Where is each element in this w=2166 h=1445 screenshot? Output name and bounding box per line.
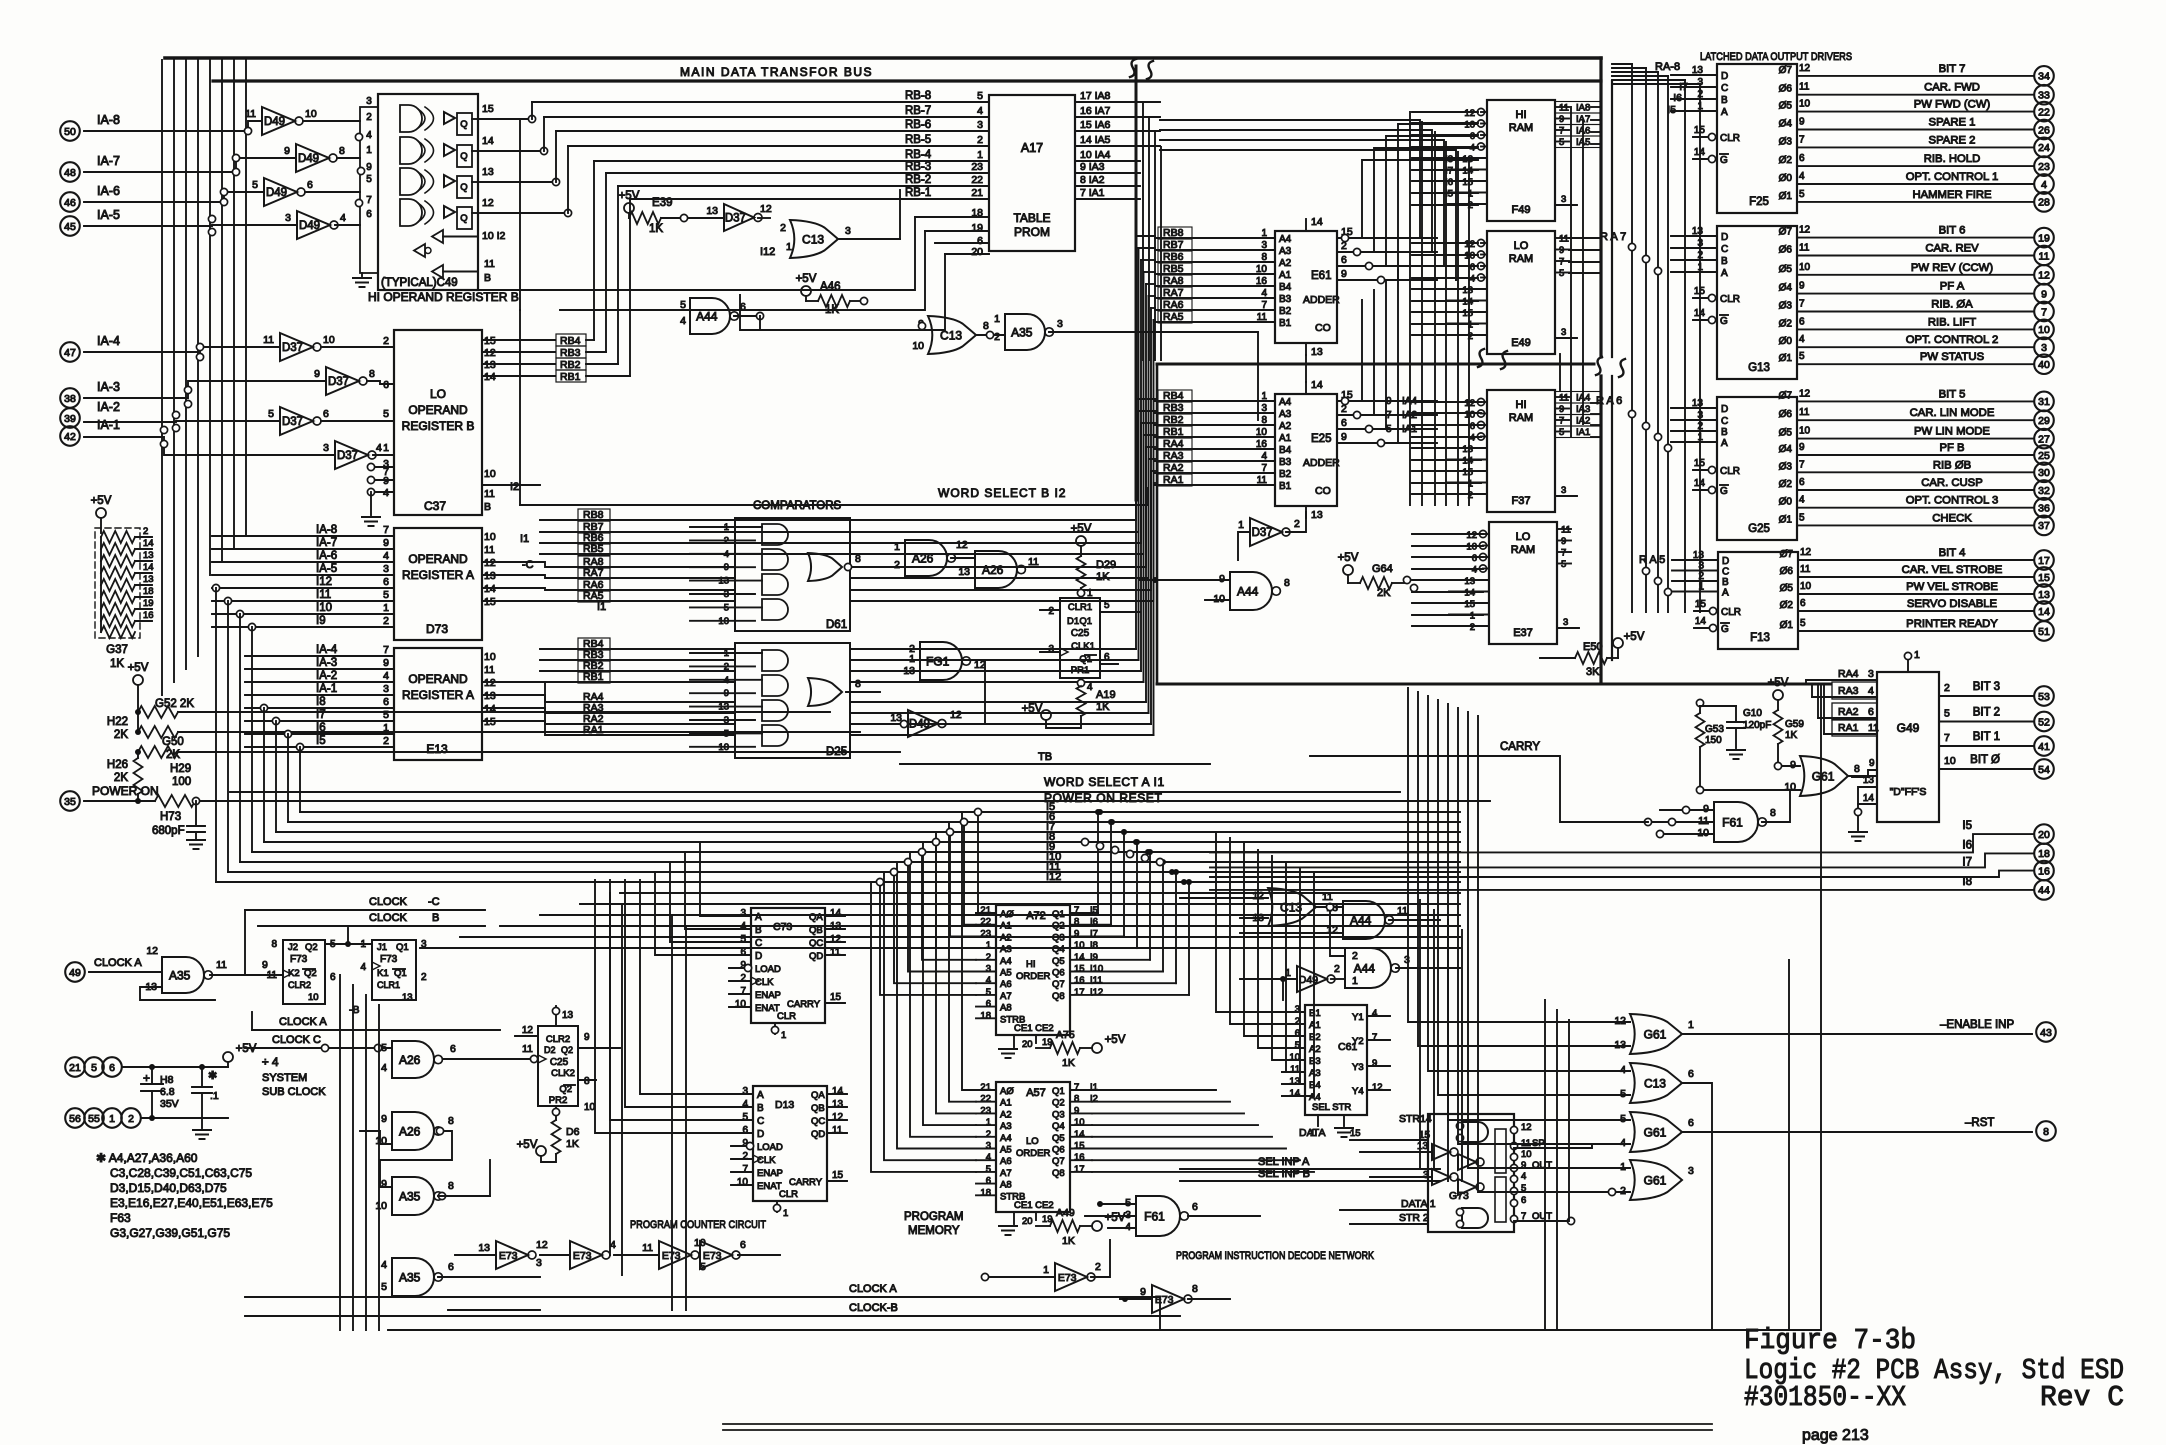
terminal 23 RIB. HOLD	[2034, 156, 2054, 176]
gate D25 OR	[808, 678, 842, 706]
svg-text:Ø3: Ø3	[1779, 136, 1793, 147]
svg-text:C37: C37	[424, 499, 446, 513]
svg-text:4: 4	[680, 315, 686, 327]
svg-text:12: 12	[1799, 63, 1811, 74]
wire F25 G pin	[1708, 155, 1715, 162]
svg-text:G: G	[1721, 624, 1729, 635]
wire left vertical bus bundle	[161, 60, 163, 695]
svg-text:BIT 5: BIT 5	[1939, 388, 1966, 400]
svg-text:I6: I6	[1673, 92, 1682, 104]
svg-text:I2: I2	[1090, 1094, 1098, 1105]
svg-text:A44: A44	[1237, 584, 1259, 598]
svg-text:E25: E25	[1311, 433, 1331, 445]
svg-text:19: 19	[971, 222, 983, 234]
svg-text:D37: D37	[725, 213, 746, 225]
svg-text:REGISTER A: REGISTER A	[402, 688, 474, 702]
svg-text:1: 1	[786, 241, 792, 253]
svg-text:5: 5	[1799, 189, 1805, 200]
wire F49 left pin rings	[1477, 108, 1484, 115]
wire C73 CLR stem	[774, 1023, 776, 1034]
svg-text:+5V: +5V	[91, 495, 112, 507]
svg-text:Q4: Q4	[1052, 944, 1065, 955]
svg-text:RB8: RB8	[583, 509, 604, 521]
svg-text:Ø7: Ø7	[1779, 390, 1793, 401]
svg-text:SPARE 2: SPARE 2	[1929, 134, 1976, 146]
svg-text:11: 11	[267, 970, 278, 981]
svg-text:6: 6	[740, 1239, 746, 1251]
svg-text:13: 13	[1462, 285, 1473, 296]
svg-text:2: 2	[977, 134, 983, 146]
wire A44#1 out	[734, 315, 760, 317]
svg-text:3: 3	[383, 563, 389, 575]
svg-text:2: 2	[740, 973, 746, 984]
svg-text:E13: E13	[426, 742, 448, 756]
svg-text:8: 8	[339, 145, 345, 157]
svg-text:5: 5	[383, 709, 389, 721]
svg-text:CHECK: CHECK	[1932, 512, 1972, 524]
svg-text:20: 20	[1022, 1216, 1033, 1227]
svg-text:C13: C13	[1280, 900, 1302, 914]
wire A17 pin18 drop	[445, 217, 915, 290]
svg-text:9: 9	[1341, 431, 1347, 443]
svg-text:D37: D37	[282, 342, 303, 354]
svg-text:1: 1	[986, 1117, 991, 1128]
wire A72 output risers to I bus	[1092, 912, 1098, 914]
svg-text:IA-5: IA-5	[316, 563, 337, 575]
svg-text:A49: A49	[1056, 1207, 1075, 1219]
svg-text:A2: A2	[1000, 1109, 1012, 1120]
svg-text:4: 4	[1868, 685, 1874, 697]
svg-text:Q8: Q8	[1052, 991, 1065, 1002]
svg-text:22: 22	[2038, 106, 2050, 118]
wire G73 out 9 run	[1514, 1167, 1630, 1169]
svg-text:A7: A7	[1000, 991, 1012, 1002]
buffer D49 #3	[264, 178, 297, 206]
wire G49 RA input rows	[1805, 680, 1807, 684]
wire IA-1 input run	[84, 437, 335, 455]
terminal 16 I7	[2034, 861, 2054, 881]
svg-text:+5V: +5V	[128, 662, 149, 674]
wire D13 CLR stem	[776, 1201, 778, 1212]
buffer C49 feedback 3	[432, 265, 443, 278]
svg-text:11: 11	[484, 544, 495, 556]
svg-text:CE1 CE2: CE1 CE2	[1014, 1200, 1054, 1211]
svg-text:F25: F25	[1749, 196, 1769, 208]
wire C13#3 to A44#3	[1316, 906, 1343, 908]
svg-text:Ø7: Ø7	[1779, 227, 1793, 238]
svg-text:11: 11	[1799, 407, 1810, 418]
latch Q cell 4	[457, 207, 472, 229]
terminal 15 CAR. VEL STROBE	[2034, 567, 2054, 587]
svg-text:D: D	[1721, 232, 1728, 243]
wire +5V A19	[1041, 710, 1051, 720]
svg-text:✱ A4,A27,A36,A60: ✱ A4,A27,A36,A60	[96, 1151, 198, 1165]
svg-text:8: 8	[271, 939, 277, 950]
svg-text:18: 18	[980, 1187, 991, 1198]
terminal 18 I6	[2034, 844, 2054, 864]
svg-text:J1: J1	[377, 942, 387, 953]
svg-text:6: 6	[383, 379, 389, 391]
wire A17 pin20 drop	[740, 254, 945, 330]
svg-text:3K: 3K	[1586, 666, 1600, 678]
IC F73 #1 flip-flop box	[283, 940, 325, 1004]
svg-text:5: 5	[1800, 618, 1806, 629]
wire D49#2 out	[337, 157, 360, 159]
svg-text:1: 1	[894, 541, 900, 553]
svg-text:3: 3	[977, 119, 983, 131]
svg-text:G: G	[1720, 155, 1728, 166]
svg-text:11: 11	[245, 108, 256, 120]
svg-text:5: 5	[1620, 1088, 1626, 1100]
wire I5-I12 bus lines with labels	[300, 811, 1460, 813]
svg-text:CLOCK C: CLOCK C	[272, 1034, 321, 1046]
svg-text:F37: F37	[1512, 495, 1531, 507]
svg-text:2K: 2K	[114, 729, 128, 741]
svg-text:5: 5	[381, 1281, 387, 1293]
svg-text:Q7: Q7	[1052, 1156, 1065, 1167]
svg-text:15: 15	[484, 596, 496, 608]
svg-text:G3,G27,G39,G51,G75: G3,G27,G39,G51,G75	[110, 1226, 230, 1240]
wire mesh C61 feed verticals	[1216, 832, 1282, 1012]
svg-text:29: 29	[2038, 415, 2050, 427]
svg-text:5: 5	[383, 589, 389, 601]
wire +5V feed for G37	[96, 508, 106, 518]
wire staircase bundle E25	[1337, 300, 1362, 401]
svg-text:CLR: CLR	[1720, 466, 1740, 477]
buffer E73 #4	[700, 1241, 732, 1269]
svg-text:E39: E39	[652, 197, 672, 209]
svg-text:5: 5	[252, 179, 258, 191]
svg-text:11: 11	[832, 1125, 843, 1136]
svg-text:6: 6	[1800, 598, 1806, 609]
svg-text:14: 14	[484, 583, 496, 595]
svg-text:10 IA4: 10 IA4	[1080, 149, 1111, 161]
wire D25 output	[846, 691, 880, 693]
svg-text:RB-2: RB-2	[905, 174, 931, 186]
svg-text:RIB ØB: RIB ØB	[1933, 459, 1971, 471]
gate A44 #1 NAND	[690, 298, 730, 334]
wire F13 G pin	[1709, 624, 1716, 631]
terminal 50 IA-8	[60, 121, 80, 141]
wire A44#3 pin12 input	[1240, 932, 1343, 934]
wire E37 left pin rings	[1479, 530, 1486, 537]
svg-text:5: 5	[91, 1062, 97, 1074]
wire carry line	[1310, 756, 1648, 822]
svg-text:PROGRAM INSTRUCTION DECODE: PROGRAM INSTRUCTION DECODE NETWORK	[1176, 1250, 1374, 1262]
resistor G37 element 6	[101, 591, 135, 603]
svg-text:F61: F61	[1722, 815, 1743, 829]
svg-text:8: 8	[1284, 577, 1290, 589]
svg-text:12: 12	[1800, 547, 1812, 558]
svg-text:I6: I6	[1962, 839, 1972, 851]
junction rings on driver feed bundle	[1628, 243, 1635, 250]
svg-text:5: 5	[1104, 600, 1110, 611]
buffer G73 #2	[1458, 1154, 1476, 1170]
wire pin column ground stem	[361, 273, 363, 276]
svg-text:1K: 1K	[649, 223, 663, 235]
svg-text:B2: B2	[1279, 469, 1292, 480]
svg-text:7: 7	[742, 1164, 748, 1175]
svg-text:35: 35	[64, 796, 76, 808]
svg-text:D1: D1	[1067, 616, 1079, 627]
svg-text:4: 4	[1372, 1008, 1377, 1019]
svg-text:#301850--XX: #301850--XX	[1744, 1381, 1906, 1414]
IC G25 box	[1717, 397, 1797, 540]
svg-text:H73: H73	[160, 811, 181, 823]
svg-text:D37: D37	[1252, 527, 1273, 539]
svg-text:+5V: +5V	[517, 1139, 538, 1151]
svg-text:9: 9	[1341, 268, 1347, 280]
terminal 47 IA-4	[60, 342, 80, 362]
svg-text:37: 37	[2038, 520, 2050, 532]
svg-text:6: 6	[1470, 421, 1475, 432]
svg-text:SYSTEM: SYSTEM	[262, 1072, 307, 1084]
svg-text:Q6: Q6	[1052, 1145, 1065, 1156]
svg-text:7: 7	[1799, 299, 1805, 310]
wire word select B line	[520, 488, 1148, 505]
svg-text:9 IA3: 9 IA3	[1080, 161, 1105, 173]
svg-text:C3,C28,C39,C51,C63,C75: C3,C28,C39,C51,C63,C75	[110, 1166, 252, 1180]
svg-text:A: A	[1721, 268, 1728, 279]
svg-text:43: 43	[2040, 1027, 2052, 1039]
svg-text:4: 4	[1261, 451, 1267, 462]
svg-text:21: 21	[69, 1062, 81, 1074]
wire extra program counter verticals	[609, 893, 611, 1255]
svg-text:RB-8: RB-8	[905, 90, 931, 102]
IC D73 OPERAND REGISTER A box	[394, 528, 482, 640]
svg-text:3: 3	[1688, 1165, 1694, 1177]
buffer E73 #2	[570, 1241, 602, 1269]
svg-text:12: 12	[1799, 225, 1811, 236]
svg-text:Ø0: Ø0	[1779, 173, 1793, 184]
svg-text:17: 17	[2038, 555, 2050, 567]
svg-text:1: 1	[1352, 975, 1358, 987]
svg-text:A2: A2	[1279, 258, 1292, 269]
svg-text:C13: C13	[1644, 1076, 1666, 1090]
svg-text:REGISTER B: REGISTER B	[402, 419, 475, 433]
wire clock-c line	[245, 909, 485, 911]
svg-text:CLOCK: CLOCK	[369, 912, 408, 924]
svg-text:G61: G61	[1644, 1027, 1667, 1041]
svg-text:9: 9	[1559, 245, 1564, 256]
svg-text:7: 7	[1559, 416, 1564, 427]
wire G73 out 11 SP run	[1514, 1144, 1630, 1148]
svg-text:9: 9	[366, 162, 372, 173]
svg-text:COMPARATORS: COMPARATORS	[753, 500, 842, 512]
wire G49 output rows	[1939, 695, 2034, 697]
svg-text:13: 13	[1462, 154, 1473, 165]
svg-text:IA-2: IA-2	[97, 400, 120, 414]
svg-text:4: 4	[383, 670, 389, 682]
svg-text:+: +	[143, 1071, 150, 1085]
svg-text:Y2: Y2	[1352, 1036, 1364, 1047]
resistor G37 element 2	[101, 543, 135, 555]
svg-text:SERVO DISABLE: SERVO DISABLE	[1907, 598, 1998, 610]
svg-text:Ø3: Ø3	[1779, 301, 1793, 312]
svg-text:6: 6	[323, 408, 329, 420]
buffer D37 #1	[280, 333, 313, 361]
wire +5V A46	[801, 286, 811, 296]
IC F73 #2 flip-flop box	[372, 940, 416, 1000]
svg-text:I8: I8	[316, 696, 326, 708]
svg-text:6: 6	[1104, 652, 1110, 663]
IC C73 counter box	[751, 908, 825, 1023]
svg-text:8: 8	[448, 1115, 454, 1127]
terminal 13 PW VEL STROBE	[2034, 584, 2054, 604]
gate A44 #4 NAND	[1345, 948, 1391, 988]
svg-text:1K: 1K	[1096, 701, 1110, 713]
svg-text:RB5: RB5	[583, 543, 604, 555]
svg-text:2: 2	[994, 331, 1000, 343]
svg-text:A17: A17	[1021, 141, 1043, 155]
svg-text:Y1: Y1	[1352, 1012, 1364, 1023]
wire long horizontals under I-bus	[620, 892, 1460, 894]
svg-text:47: 47	[64, 347, 76, 359]
buffer D49 #4	[297, 211, 330, 239]
svg-text:A57: A57	[1026, 1087, 1046, 1099]
svg-text:10: 10	[1697, 827, 1709, 839]
svg-text:2: 2	[894, 559, 900, 571]
svg-text:5: 5	[1944, 708, 1950, 720]
svg-text:2: 2	[128, 1113, 134, 1125]
gate FG1 NAND	[920, 642, 962, 680]
svg-text:Y4: Y4	[1352, 1086, 1364, 1097]
svg-text:F61: F61	[1144, 1209, 1165, 1223]
svg-text:5: 5	[986, 1164, 991, 1175]
svg-text:SEL INP B: SEL INP B	[1258, 1168, 1310, 1180]
svg-text:680pF: 680pF	[152, 825, 185, 837]
svg-text:(TYPICAL)C49: (TYPICAL)C49	[381, 277, 458, 289]
svg-text:RA7: RA7	[583, 567, 604, 579]
wire D37#1 out	[321, 346, 394, 348]
svg-text:RIB. LIFT: RIB. LIFT	[1928, 316, 1976, 328]
svg-text:7: 7	[383, 524, 389, 536]
svg-text:42: 42	[64, 431, 76, 443]
svg-text:2: 2	[143, 526, 148, 537]
buffer D49 #5	[908, 710, 938, 737]
svg-text:A26: A26	[399, 1053, 421, 1067]
terminal 19 BIT 6	[2034, 228, 2054, 248]
svg-text:7: 7	[366, 195, 372, 206]
wire D73 I-row drops to I bus	[212, 584, 219, 591]
svg-text:RA4: RA4	[1838, 668, 1859, 680]
svg-text:4: 4	[977, 105, 983, 117]
svg-text:–RST: –RST	[1965, 1117, 1994, 1129]
buffer C49 feedback 1	[432, 230, 443, 243]
buffer D49 #2	[296, 144, 329, 172]
wire clock C mid line	[245, 1047, 392, 1049]
svg-text:13: 13	[1311, 509, 1323, 521]
wire mesh D13 inputs	[640, 880, 731, 1094]
svg-text:G50: G50	[162, 736, 184, 748]
wire mesh verticals into A57	[962, 812, 976, 1090]
wire E49 right rows	[1555, 237, 1569, 239]
terminal 37 CHECK	[2034, 516, 2054, 536]
svg-text:F73: F73	[380, 954, 398, 965]
svg-text:14: 14	[1462, 297, 1473, 308]
svg-text:8 IA2: 8 IA2	[1080, 174, 1105, 186]
svg-text:CLR: CLR	[779, 1189, 798, 1200]
terminal 14 SERVO DISABLE	[2034, 601, 2054, 621]
terminal 3 OPT. CONTROL 2	[2034, 337, 2054, 357]
resistor G37 element 7	[101, 603, 135, 615]
svg-text:4: 4	[383, 550, 389, 562]
svg-text:6: 6	[450, 1043, 456, 1055]
wire D37#6 loop	[1238, 532, 1250, 560]
wire +5V G64	[1343, 565, 1353, 575]
terminal 42 IA-1	[60, 426, 80, 446]
svg-text:CLR: CLR	[777, 1011, 796, 1022]
wire G25 CLR pin	[1708, 466, 1715, 473]
wire A44#4 out	[1396, 967, 1460, 969]
svg-text:11: 11	[522, 1043, 533, 1055]
svg-text:15: 15	[2038, 572, 2050, 584]
svg-text:PW STATUS: PW STATUS	[1920, 351, 1985, 363]
svg-text:OPERAND: OPERAND	[408, 403, 468, 417]
svg-text:DATA 1: DATA 1	[1401, 1198, 1436, 1210]
svg-text:I12: I12	[1046, 871, 1061, 883]
gate G73 NAND bottom	[1462, 1208, 1488, 1228]
wire D49#6 to A44#4	[1331, 978, 1345, 980]
svg-text:CLOCK: CLOCK	[369, 896, 408, 908]
buffer E73 #3	[659, 1241, 691, 1269]
svg-text:Ø0: Ø0	[1779, 336, 1793, 347]
svg-text:6: 6	[1192, 1201, 1198, 1213]
svg-text:4: 4	[381, 1259, 387, 1271]
svg-text:Ø6: Ø6	[1780, 566, 1794, 577]
wire A35#4 out	[438, 1276, 540, 1278]
svg-text:G49: G49	[1897, 721, 1920, 735]
svg-text:ENAP: ENAP	[755, 990, 781, 1001]
gate G61 #3 OR (rst)	[1630, 1112, 1682, 1152]
svg-text:3: 3	[1404, 954, 1410, 966]
svg-text:RA6: RA6	[1163, 299, 1184, 311]
svg-text:OPERAND: OPERAND	[408, 672, 468, 686]
svg-text:12: 12	[832, 1112, 844, 1123]
svg-text:A72: A72	[1026, 910, 1046, 922]
svg-text:CARRY: CARRY	[787, 999, 821, 1010]
svg-text:CARRY: CARRY	[1500, 741, 1540, 753]
junction rings on pin column	[355, 133, 362, 140]
terminal 48 IA-7	[60, 162, 80, 182]
svg-text:R A 6: R A 6	[1596, 395, 1622, 407]
svg-text:4: 4	[1087, 682, 1093, 693]
wire IA-3 input run	[84, 381, 326, 398]
svg-text:E73: E73	[499, 1250, 518, 1262]
svg-text:B: B	[1721, 95, 1728, 106]
gate G61 #4 OR	[1630, 1160, 1682, 1200]
svg-text:8: 8	[983, 320, 989, 332]
svg-text:9: 9	[1559, 404, 1564, 415]
terminal 54 BIT Ø	[2034, 759, 2054, 779]
svg-text:23: 23	[971, 161, 983, 173]
svg-text:G52 2K: G52 2K	[155, 698, 194, 710]
svg-text:12: 12	[522, 1025, 534, 1036]
svg-text:2K: 2K	[114, 772, 128, 784]
svg-text:E37: E37	[1513, 627, 1533, 639]
svg-text:Ø1: Ø1	[1779, 191, 1793, 202]
wire E73#4 out	[738, 1254, 780, 1256]
svg-text:9: 9	[1799, 442, 1805, 453]
svg-text:1: 1	[383, 602, 389, 614]
terminal 17 BIT 4	[2034, 550, 2054, 570]
svg-text:Q4: Q4	[1052, 1121, 1065, 1132]
svg-text:RB-1: RB-1	[905, 187, 931, 199]
svg-text:G37: G37	[106, 644, 128, 656]
svg-text:16: 16	[2038, 865, 2050, 877]
wire clock A bottom	[245, 1296, 1160, 1298]
svg-text:Q1: Q1	[396, 942, 409, 953]
